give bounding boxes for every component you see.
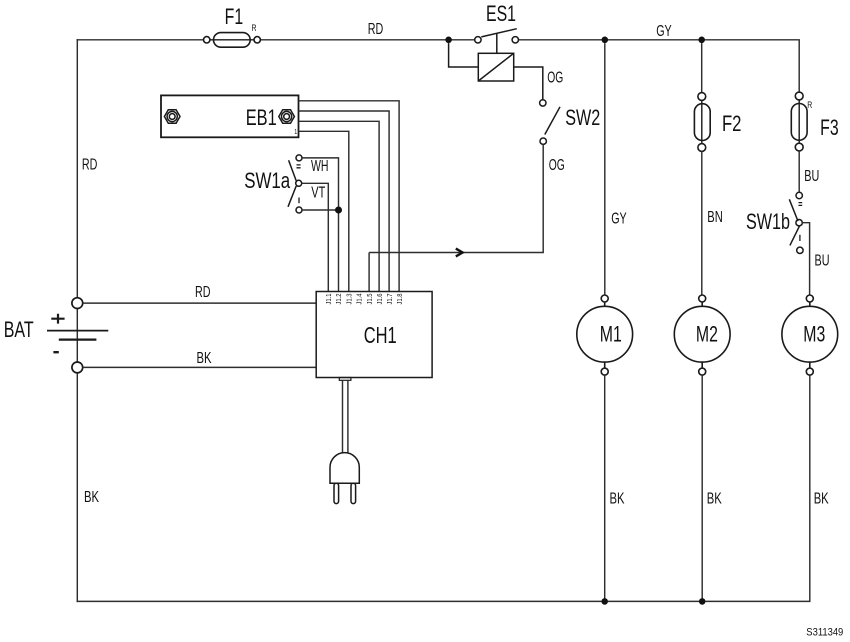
- wire SW1a I to junction: [302, 209, 339, 211]
- EB1 left mounting nut: [164, 110, 180, 123]
- label II (SW1a pos): [297, 165, 301, 168]
- svg-text:BU: BU: [804, 168, 819, 185]
- svg-text:RD: RD: [195, 284, 211, 301]
- fuse F1: [204, 33, 261, 48]
- wire EB1 pin to J1.3: [299, 131, 349, 291]
- wire down to F2: [701, 43, 703, 93]
- emergency switch ES1: [449, 29, 543, 100]
- svg-text:OG: OG: [549, 157, 565, 174]
- svg-text:M3: M3: [803, 322, 825, 347]
- wire EB1 pin to J1.6: [299, 121, 380, 291]
- svg-text:BK: BK: [197, 350, 212, 367]
- svg-text:R: R: [807, 100, 812, 110]
- junction node F2 branch: [698, 37, 705, 44]
- svg-text:CH1: CH1: [364, 322, 397, 348]
- svg-text:ES1: ES1: [486, 1, 516, 26]
- svg-text:SW1a: SW1a: [244, 168, 291, 193]
- svg-text:J1.7: J1.7: [387, 293, 394, 304]
- label I (SW1b pos): [799, 235, 801, 241]
- svg-text:RD: RD: [368, 21, 384, 38]
- label II (SW1b pos): [799, 203, 803, 206]
- svg-text:J1.6: J1.6: [377, 293, 384, 304]
- svg-text:OG: OG: [547, 69, 563, 86]
- svg-text:VT: VT: [311, 184, 325, 201]
- switch SW1a: [288, 155, 302, 213]
- wire RD battery to CH1: [83, 302, 317, 304]
- CH1 bottom connector: [339, 378, 351, 381]
- svg-text:J1.8: J1.8: [397, 293, 404, 304]
- svg-text:BN: BN: [707, 209, 723, 226]
- fuse F2: [694, 93, 710, 152]
- motor M3: [782, 295, 838, 375]
- svg-text:BAT: BAT: [4, 317, 34, 342]
- svg-text:F1: F1: [225, 4, 244, 29]
- svg-text:GY: GY: [611, 210, 627, 227]
- svg-text:BK: BK: [814, 491, 829, 508]
- svg-text:M2: M2: [696, 322, 718, 347]
- svg-text:SW2: SW2: [565, 105, 600, 130]
- svg-text:F2: F2: [722, 111, 742, 136]
- fuse F3: [791, 92, 807, 151]
- battery BAT: [47, 298, 108, 373]
- svg-text:EB1: EB1: [246, 105, 277, 130]
- plug P1: [330, 453, 359, 504]
- switch SW1b: [789, 192, 809, 295]
- wire BU F3 to SW1b: [798, 151, 800, 192]
- wire BN F2 to M2: [701, 151, 703, 295]
- wire BK battery to CH1: [83, 366, 317, 368]
- wire bottom bus BK: [77, 600, 810, 602]
- svg-text:J1.4: J1.4: [357, 293, 364, 304]
- label I (SW1a pos): [298, 198, 300, 204]
- EB1 right mounting nut: [279, 110, 295, 123]
- wire SW1a common to J1.1: [302, 183, 329, 291]
- switch SW2: [369, 100, 560, 253]
- svg-text:RD: RD: [82, 157, 98, 174]
- wire top bus right segment GY: [519, 40, 800, 93]
- svg-text:J1.2: J1.2: [336, 293, 343, 304]
- svg-text:M1: M1: [600, 322, 622, 347]
- wire left vertical RD/BK: [76, 40, 78, 602]
- wire EB1 pin to J1.7: [299, 111, 390, 292]
- wire J1.5 stub: [368, 253, 370, 292]
- wire EB1 pin to J1.8: [299, 101, 400, 292]
- wire SW1a II to J1.2: [302, 158, 339, 292]
- svg-text:S311349: S311349: [806, 627, 843, 639]
- svg-text:1: 1: [294, 129, 297, 136]
- svg-text:BK: BK: [707, 491, 722, 508]
- wire top bus left segment RD: [77, 39, 203, 41]
- svg-text:GY: GY: [656, 23, 672, 40]
- svg-text:R: R: [252, 23, 257, 33]
- junction node M2 bottom: [699, 598, 706, 605]
- junction node ES1 branch: [445, 37, 452, 44]
- svg-text:BU: BU: [815, 252, 830, 269]
- charger CH1: [316, 292, 432, 378]
- junction node SW1a I / J1.2: [335, 207, 342, 214]
- wire top bus middle segment: [261, 39, 475, 41]
- svg-text:WH: WH: [311, 158, 329, 175]
- svg-text:SW1b: SW1b: [746, 209, 790, 234]
- svg-text:J1.1: J1.1: [326, 293, 333, 304]
- junction node GY/M1: [602, 37, 609, 44]
- wire M1 to bottom bus BK: [604, 375, 606, 601]
- wire GY down to M1: [604, 43, 606, 295]
- wire power cord: [343, 380, 348, 453]
- svg-text:J1.5: J1.5: [367, 293, 374, 304]
- motor M1: [577, 295, 633, 375]
- motor M2: [674, 295, 730, 375]
- svg-text:J1.3: J1.3: [347, 293, 354, 304]
- svg-text:BK: BK: [610, 491, 625, 508]
- wire M3 to bottom bus BK: [809, 375, 811, 601]
- electronics box EB1: [161, 95, 299, 137]
- svg-text:BK: BK: [84, 489, 99, 506]
- arrow on wire to CH1 J1.5: [456, 249, 463, 257]
- svg-text:F3: F3: [820, 115, 839, 140]
- junction node M1 bottom: [601, 598, 608, 605]
- wire M2 to bottom bus BK: [701, 375, 703, 601]
